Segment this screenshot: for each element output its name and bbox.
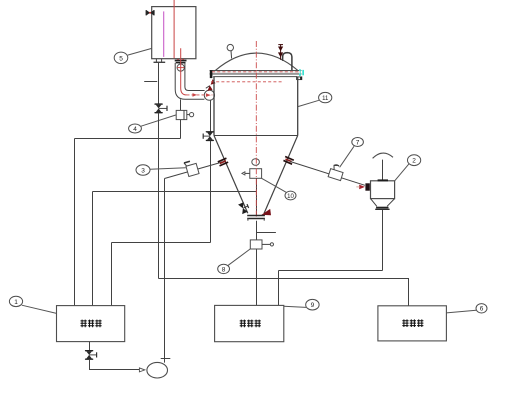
label 3 leader [150, 168, 186, 170]
label 8 leader [228, 249, 250, 265]
hopper drain pipe [382, 210, 384, 271]
tank 1 drain pipe [89, 342, 91, 351]
red vertical axis centerline [255, 41, 257, 219]
red dashed line below flange [211, 81, 283, 83]
suction arrow [139, 368, 144, 372]
svg-text:10: 10 [287, 194, 294, 200]
red arrow at cone outlet [261, 209, 271, 215]
drain to pump suction [90, 359, 140, 369]
tank 6 name glyphs [402, 319, 423, 327]
label 5 leader [128, 48, 152, 55]
pipe below V1 down to long header [158, 113, 160, 279]
vessel outlet flange [247, 216, 265, 221]
item 8 box [250, 240, 262, 249]
balloon 4 [129, 124, 142, 133]
vessel dome [215, 53, 297, 70]
right cone nozzle flange [283, 157, 293, 165]
branch from feed line via item4 horizontal [75, 138, 181, 140]
svg-text:6: 6 [480, 306, 484, 313]
svg-text:1: 1 [14, 299, 18, 306]
agitator shaft [382, 160, 384, 181]
balloon 6 [476, 304, 487, 313]
agitator arc above hopper [373, 153, 393, 158]
red dashed line inside flange [212, 71, 300, 73]
vessel cone [214, 136, 248, 214]
gooseneck vent [283, 53, 292, 71]
balloon 9 [306, 299, 319, 310]
lower cone valve (angled) [238, 201, 250, 214]
svg-text:9: 9 [311, 302, 315, 309]
tank 1 body [57, 306, 125, 342]
label 4 leader [141, 115, 176, 126]
hopper H2 body [371, 181, 395, 199]
red flow dashes in horizontal pipe [187, 94, 213, 96]
pressure gauge PG [227, 44, 233, 50]
level ellipse of item 10 [252, 159, 260, 166]
riser to tank1 second inlet [92, 192, 94, 306]
discharge line to hopper [290, 162, 365, 186]
riser to tank1 first inlet [74, 139, 76, 306]
pipe from vessel wall nozzle down [210, 100, 212, 131]
long header to tank 6 [159, 279, 409, 306]
riser to tank1 third inlet [111, 243, 113, 306]
drop into tank 9 [278, 271, 280, 306]
balloon 10 [285, 191, 296, 200]
flange gasket band [213, 71, 301, 73]
balloon 5 [114, 52, 128, 63]
valve V1 on T5 down pipe [155, 104, 167, 113]
valve 7 rotated body [328, 163, 345, 180]
pipe wall-valve to tank1 horizontal [112, 242, 211, 244]
outlet pipe to tank 9 [256, 221, 258, 306]
pump P1 [147, 362, 168, 378]
vessel left nozzle red arrows [208, 85, 213, 91]
T5 left support foot [154, 59, 166, 63]
balloon 3 [136, 165, 150, 175]
instrument 3 rotated body [184, 160, 199, 177]
pipe item10 to outlet [256, 178, 258, 215]
valve on T5 left wall [146, 10, 154, 15]
pipe below wall valve [210, 141, 212, 243]
red flow arrowheads [193, 93, 198, 97]
stem below item 4 [180, 120, 182, 139]
item 10 left arrow [245, 172, 250, 174]
hopper bottom flange [376, 207, 388, 209]
slurry line pump to cone nozzle [165, 162, 223, 179]
hopper cone [371, 199, 377, 207]
tick on T5 down pipe [144, 81, 157, 83]
vessel shell walls [213, 77, 215, 136]
balloon 1 [9, 296, 22, 306]
item 8 probe [262, 243, 270, 245]
tank 1 name glyphs [81, 320, 102, 328]
T5 down pipe to network [158, 62, 160, 104]
svg-text:2: 2 [412, 158, 416, 165]
balloon 7 [352, 138, 364, 147]
left cone nozzle flange [218, 158, 228, 166]
item 4 actuator box [176, 110, 194, 119]
stem above item 4 [180, 99, 182, 110]
label 7 leader [340, 146, 354, 167]
vessel top flange [210, 70, 302, 80]
T5 right outlet flange [175, 59, 187, 64]
magenta level line in T5 [163, 11, 165, 57]
hopper top mount [378, 179, 388, 181]
red inlet arrow [359, 185, 365, 190]
svg-text:8: 8 [222, 266, 226, 273]
branch from vessel outlet horizontal [93, 191, 257, 193]
sight glass below T5 outlet [177, 64, 184, 71]
tank 9 name glyphs [240, 320, 261, 328]
label 2 leader [395, 164, 409, 181]
feed pipe elbow to vessel (double wall) [175, 63, 204, 99]
red centerline of feed pipe [181, 48, 187, 95]
tank 9 body [215, 305, 284, 341]
valve V2 below tank 1 [86, 351, 97, 360]
head tank T5 body [152, 7, 196, 59]
red centerline through T5 [173, 0, 175, 58]
svg-text:11: 11 [322, 96, 329, 102]
label 9 leader [284, 306, 306, 307]
item 10 box [250, 169, 262, 179]
balloon 8 [218, 264, 230, 273]
valve V-wall at vessel left wall [203, 132, 213, 141]
balloon 2 [408, 155, 421, 166]
svg-text:4: 4 [133, 126, 137, 133]
hopper drain horizontal [279, 270, 383, 272]
svg-text:3: 3 [141, 168, 145, 175]
hopper inlet flange [365, 183, 369, 190]
svg-text:7: 7 [356, 139, 360, 146]
tick above pump [161, 358, 171, 360]
balloon 11 [319, 92, 332, 102]
label 11 leader [298, 100, 319, 106]
vessel bottom seam [214, 135, 298, 137]
cyan marks at flange right end [299, 69, 301, 76]
label 6 leader [446, 310, 476, 313]
label 1 leader [22, 305, 57, 313]
tick right of outlet pipe [257, 232, 276, 234]
pump discharge riser [164, 179, 166, 363]
elbow end circle at vessel nozzle [204, 90, 214, 100]
svg-text:5: 5 [119, 55, 123, 62]
relief valve on dome [278, 44, 283, 60]
tank 6 body [378, 306, 447, 341]
label 10 leader [262, 178, 287, 192]
